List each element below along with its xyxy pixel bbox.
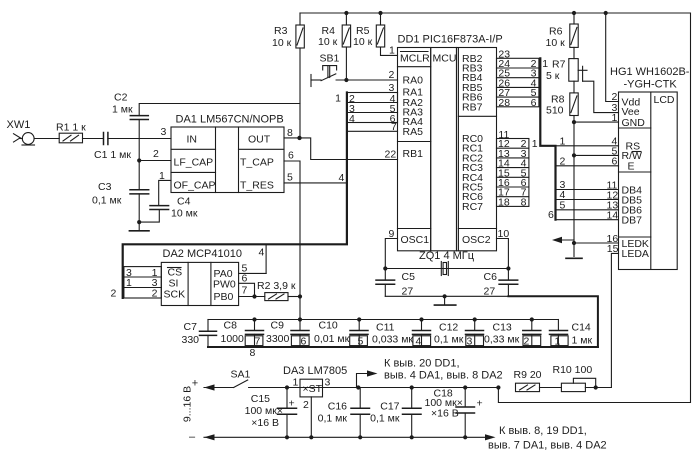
capacitor C8	[245, 320, 263, 347]
svg-text:0,033 мк: 0,033 мк	[372, 334, 413, 346]
svg-text:22: 22	[385, 149, 397, 161]
DD1 pin11 RC0 number	[498, 129, 509, 141]
rail junction dots	[252, 317, 534, 321]
svg-text:0,1 мк: 0,1 мк	[318, 413, 348, 425]
svg-text:9...16 В: 9...16 В	[182, 386, 194, 422]
svg-text:DA1 LM567CN/NOPB: DA1 LM567CN/NOPB	[176, 114, 284, 126]
trimmer R7	[569, 59, 619, 113]
svg-text:10: 10	[498, 228, 510, 240]
svg-text:6: 6	[301, 335, 307, 347]
svg-text:выв. 4 DA1, выв. 8 DA2: выв. 4 DA1, выв. 8 DA2	[384, 370, 503, 382]
svg-text:×16 В: ×16 В	[251, 417, 279, 429]
wire C4 to ground node	[139, 210, 159, 223]
R9 label	[514, 369, 542, 381]
ladder numbers DA2 side	[111, 267, 158, 300]
svg-text:1: 1	[126, 277, 132, 289]
svg-text:LEDA: LEDA	[622, 248, 649, 260]
svg-text:0,33 мк: 0,33 мк	[484, 334, 520, 346]
DA3 labels	[283, 365, 347, 439]
svg-text:6: 6	[612, 156, 618, 168]
R3 value label	[272, 25, 292, 49]
harness bundle RB/RC side to LCD	[540, 58, 555, 219]
svg-text:4: 4	[349, 113, 355, 125]
svg-text:C4: C4	[177, 196, 191, 208]
harness bundle RA side to DA2	[123, 93, 347, 298]
svg-text:27: 27	[484, 286, 496, 298]
wire power minus rail	[204, 436, 489, 438]
wire 6 to DB7	[556, 219, 619, 221]
DD1 left pin name labels	[401, 75, 430, 247]
svg-text:C14: C14	[572, 322, 591, 334]
svg-text:C10: C10	[319, 320, 338, 332]
svg-text:MCLR: MCLR	[400, 53, 430, 65]
svg-text:330: 330	[182, 334, 200, 346]
supply label 9...16V	[182, 378, 199, 444]
MCLR overline	[401, 51, 429, 53]
ground crystal	[434, 296, 455, 305]
svg-text:RB7: RB7	[462, 101, 483, 113]
wire DA1 pin8 to DD1 RB1	[300, 138, 398, 160]
svg-text:C12: C12	[439, 322, 458, 334]
junction C3 node / DA1 pin2	[137, 158, 141, 162]
svg-text:2: 2	[524, 335, 530, 347]
svg-text:1: 1	[555, 335, 561, 347]
capacitor C12	[466, 320, 484, 347]
pushbutton SB1	[311, 66, 398, 87]
svg-text:DD1 PIC16F873A-I/P: DD1 PIC16F873A-I/P	[398, 34, 503, 46]
R5 value label	[353, 25, 373, 48]
svg-text:1: 1	[612, 112, 618, 124]
C1 value label	[94, 149, 131, 161]
svg-text:6: 6	[242, 273, 248, 285]
capacitor C9	[291, 297, 309, 347]
svg-text:8: 8	[521, 196, 527, 208]
junction C4/C3 ground node	[137, 220, 141, 224]
DD1 right pin name labels	[462, 53, 491, 246]
wire GND pin1	[574, 121, 619, 123]
svg-text:PW0: PW0	[213, 279, 236, 291]
svg-text:-YGH-CTK: -YGH-CTK	[624, 79, 678, 91]
svg-text:2: 2	[152, 288, 158, 300]
svg-text:10 мк: 10 мк	[171, 208, 198, 220]
resistor R3	[296, 13, 304, 138]
svg-text:SB1: SB1	[320, 53, 340, 65]
capacitor C17	[403, 388, 422, 438]
wire Vee pin3 number	[612, 102, 618, 114]
junction crystal ground node	[443, 294, 447, 298]
svg-text:OSC1: OSC1	[401, 234, 430, 246]
svg-text:DA3 LM7805: DA3 LM7805	[283, 365, 347, 377]
junction SB1/R4/RA0	[344, 78, 348, 82]
svg-text:100 мк×: 100 мк×	[245, 405, 283, 417]
svg-text:OUT: OUT	[248, 134, 271, 146]
capacitor rail bottom (ground bus)	[208, 346, 598, 348]
wire 5 to DB6	[556, 209, 619, 211]
junction +5V rail / R9 input	[496, 385, 500, 389]
C8 value label	[221, 320, 261, 360]
arrow plus to VCC pins	[357, 370, 378, 387]
C14 value label	[555, 322, 593, 348]
C12 value label	[434, 322, 473, 348]
capacitor C3	[130, 190, 149, 194]
ladder numbers RB side	[498, 58, 548, 109]
wire 4 from bundle to PA0	[239, 244, 267, 273]
svg-text:1: 1	[532, 138, 538, 150]
wire LEDA pin15 from R10	[611, 253, 618, 387]
R1 value label	[56, 122, 86, 134]
capacitor C11	[413, 320, 431, 347]
resistor R5	[376, 13, 397, 55]
digital pot DA2 MCP41010	[161, 262, 238, 305]
C18 polarity and labels	[425, 385, 483, 439]
svg-text:C9: C9	[271, 320, 285, 332]
R8 value label	[546, 94, 565, 117]
capacitor C13	[523, 320, 541, 347]
common arrow at LEDK node	[552, 237, 574, 243]
svg-text:14: 14	[607, 210, 619, 222]
junction OSC1/ZQ1 and OSC2/ZQ1	[383, 266, 510, 270]
ground C3 node	[129, 230, 149, 232]
wire 2 to E	[556, 165, 619, 167]
svg-text:DB7: DB7	[622, 215, 643, 227]
svg-text:MCU: MCU	[433, 53, 457, 65]
svg-text:+: +	[289, 398, 295, 410]
DA1 pin6 wire down to C9 node	[284, 161, 300, 297]
ladder numbers RA side	[335, 93, 396, 125]
svg-text:+: +	[477, 398, 483, 410]
DD1 pin22 RB1 number	[385, 149, 397, 161]
svg-text:RC7: RC7	[462, 201, 483, 213]
svg-text:LCD: LCD	[654, 94, 675, 106]
svg-text:1000: 1000	[221, 333, 245, 345]
DA1 pin8 wire to node	[284, 137, 300, 139]
DA2 title	[163, 248, 243, 303]
svg-text:C8: C8	[224, 320, 238, 332]
svg-text:×16 В: ×16 В	[431, 408, 459, 420]
ground LCD / R8 chain	[566, 257, 582, 259]
svg-text:0,1 мк: 0,1 мк	[370, 413, 400, 425]
capacitor C15 electrolytic	[278, 388, 297, 438]
HG1 pin name labels	[622, 96, 649, 260]
svg-text:28: 28	[498, 97, 510, 109]
svg-text:выв. 7 DA1, выв. 4 DA2: выв. 7 DA1, выв. 4 DA2	[488, 440, 607, 452]
switch SA1	[234, 380, 248, 388]
C10 value label	[314, 320, 364, 348]
ladder boxes RB3-RB7 wires 2-6	[497, 58, 539, 107]
svg-text:OSC2: OSC2	[462, 234, 491, 246]
wire LEDK pin16	[574, 242, 619, 244]
C6 value label	[484, 271, 498, 298]
svg-text:6: 6	[548, 209, 554, 221]
note text VCC pins	[384, 358, 503, 382]
C4 value label	[171, 196, 198, 220]
svg-text:R2 3,9 к: R2 3,9 к	[257, 280, 296, 292]
SB1 label	[320, 53, 340, 65]
svg-text:2: 2	[389, 69, 395, 81]
svg-text:C5: C5	[402, 271, 416, 283]
svg-text:7: 7	[255, 335, 261, 347]
svg-text:RA0: RA0	[403, 75, 424, 87]
wire PB0 to R2	[239, 296, 265, 298]
svg-text:R10 100: R10 100	[553, 364, 593, 376]
svg-text:RA5: RA5	[403, 126, 424, 138]
DA1 pin2 wire	[139, 160, 171, 162]
svg-text:LF_CAP: LF_CAP	[174, 157, 214, 169]
svg-text:0,1 мк: 0,1 мк	[92, 195, 122, 207]
svg-text:7: 7	[391, 121, 397, 133]
XW1 label	[7, 119, 31, 131]
resistor R6	[570, 13, 578, 59]
C17 labels	[370, 385, 414, 439]
DD1 title	[398, 34, 503, 65]
LCD module HG1 WH1602B	[619, 92, 678, 270]
svg-text:9: 9	[389, 228, 395, 240]
wire R9 to R10	[540, 387, 562, 389]
ladder boxes DA2 CS/SI/SCK	[124, 267, 161, 298]
svg-text:GND: GND	[622, 117, 646, 129]
ladder boxes RC1-RC7 wires 2-8	[497, 139, 529, 207]
svg-text:1: 1	[293, 377, 299, 389]
svg-text:10 к: 10 к	[318, 36, 338, 48]
resistor R1	[59, 133, 103, 143]
wire Vdd from top bus	[606, 13, 619, 102]
svg-text:6: 6	[288, 150, 294, 162]
wire crystal ground line	[385, 295, 508, 297]
svg-text:18: 18	[498, 196, 510, 208]
svg-text:RB1: RB1	[403, 148, 424, 160]
DD1 pin7 RA5 wire	[347, 130, 398, 132]
C9 value label	[266, 320, 307, 348]
ladder boxes DD1 RA2-RA4 wires 2,3,4	[347, 93, 398, 123]
svg-text:C1 1 мк: C1 1 мк	[94, 149, 131, 161]
svg-text:R6: R6	[549, 26, 563, 38]
DD1 pin1 number	[389, 45, 395, 57]
DD1 pin2 RA0 number	[389, 69, 395, 81]
svg-text:C15: C15	[251, 393, 270, 405]
svg-text:R3: R3	[274, 25, 288, 37]
svg-text:10 к: 10 к	[272, 37, 292, 49]
DA1 pin1 wire	[159, 180, 171, 205]
svg-text:5: 5	[560, 199, 566, 211]
svg-text:8: 8	[287, 127, 293, 139]
svg-text:1 мк: 1 мк	[112, 104, 133, 116]
junction R10 output	[594, 385, 598, 389]
arrow plus rail	[204, 384, 215, 390]
wire C3 to ground	[138, 194, 140, 231]
svg-text:IN: IN	[187, 134, 198, 146]
C7 value label	[182, 321, 200, 346]
svg-text:2: 2	[560, 155, 566, 167]
svg-text:5 к: 5 к	[546, 70, 560, 82]
svg-text:C6: C6	[484, 271, 498, 283]
wire PW0 to PB0 node	[239, 283, 255, 296]
DA1 pin5 wire to bundle	[284, 182, 347, 184]
svg-text:1: 1	[389, 45, 395, 57]
junction R2 / DA1 pin6 / C9 net	[298, 294, 302, 298]
svg-text:К выв. 8, 19 DD1,: К выв. 8, 19 DD1,	[499, 425, 587, 437]
C2 value label	[112, 92, 133, 116]
svg-text:ZQ1 4 МГц: ZQ1 4 МГц	[419, 250, 475, 262]
svg-text:4: 4	[416, 335, 422, 347]
svg-text:–: –	[189, 431, 196, 443]
wire ground bus to cap rail	[508, 296, 598, 347]
svg-text:DA2 MCP41010: DA2 MCP41010	[163, 248, 243, 260]
svg-text:C3: C3	[98, 181, 112, 193]
junction DA1 pin8 / R3	[297, 136, 301, 140]
resistor R8	[570, 93, 578, 257]
svg-text:PB0: PB0	[214, 291, 234, 303]
wire node vertical C2/C3	[138, 120, 140, 190]
svg-text:6: 6	[531, 97, 537, 109]
svg-text:0,1 мк: 0,1 мк	[434, 334, 464, 346]
HG1 title	[610, 66, 690, 106]
arrow minus rail	[204, 434, 215, 440]
DD1 pin9 OSC1 wire	[385, 239, 397, 269]
C3 value label	[92, 181, 122, 207]
svg-text:T_RES: T_RES	[240, 180, 274, 192]
capacitor C16	[351, 388, 370, 438]
DD1 pin3 RA1 wire	[347, 92, 398, 94]
svg-text:27: 27	[402, 286, 414, 298]
R6 value label	[546, 26, 566, 50]
crystal ZQ1	[385, 262, 508, 276]
capacitor C1	[104, 133, 108, 145]
wire 4 to DB5	[556, 199, 619, 201]
DD1 pin10 OSC2 wire	[497, 239, 509, 269]
capacitor C5	[376, 269, 395, 297]
svg-text:5: 5	[358, 335, 364, 347]
C15 polarity and labels	[245, 385, 295, 439]
R4 value label	[318, 25, 338, 48]
wire C1 to DA1 pin3	[108, 138, 171, 140]
capacitor C6	[499, 269, 518, 297]
svg-text:4: 4	[259, 247, 265, 259]
wire 3 to DB4	[556, 189, 619, 191]
wire +5V top bus	[300, 13, 691, 403]
svg-text:4: 4	[339, 172, 345, 184]
capacitor C10	[350, 320, 368, 347]
R/W overline	[633, 151, 642, 153]
svg-text:SA1: SA1	[231, 369, 251, 381]
svg-text:C2: C2	[114, 92, 128, 104]
svg-text:C11: C11	[376, 322, 395, 334]
svg-text:3: 3	[161, 126, 167, 138]
svg-text:R7: R7	[552, 59, 566, 71]
svg-text:C16: C16	[328, 401, 347, 413]
capacitor C14	[550, 320, 569, 347]
svg-text:К выв. 20 DD1,: К выв. 20 DD1,	[384, 358, 460, 370]
resistor R9	[516, 383, 540, 391]
svg-text:OF_CAP: OF_CAP	[174, 180, 216, 192]
svg-text:SCK: SCK	[164, 289, 186, 301]
svg-text:15: 15	[607, 243, 619, 255]
svg-text:1 мк: 1 мк	[572, 335, 593, 347]
svg-text:10 к: 10 к	[546, 37, 566, 49]
svg-text:510: 510	[546, 105, 564, 117]
svg-text:R1 1 к: R1 1 к	[56, 122, 86, 134]
C5 value label	[402, 271, 416, 298]
svg-text:2: 2	[111, 288, 117, 300]
capacitor rail top	[208, 319, 558, 321]
svg-text:3: 3	[325, 377, 331, 389]
C16 labels	[318, 385, 363, 439]
svg-text:XW1: XW1	[7, 119, 31, 131]
R7 value label	[546, 59, 566, 83]
svg-text:1: 1	[560, 135, 566, 147]
capacitor C18 electrolytic	[456, 388, 475, 438]
svg-text:2: 2	[153, 148, 159, 160]
svg-text:1: 1	[542, 58, 548, 70]
svg-text:1: 1	[159, 170, 165, 182]
svg-text:C7: C7	[184, 321, 198, 333]
svg-text:R9 20: R9 20	[514, 369, 542, 381]
svg-text:10 к: 10 к	[353, 36, 373, 48]
wire power plus rail	[204, 387, 498, 389]
ZQ1 label	[419, 250, 475, 262]
svg-text:3: 3	[467, 335, 473, 347]
capacitor C7	[200, 320, 217, 347]
svg-text:0,01 мк: 0,01 мк	[314, 333, 350, 345]
capacitor C2	[130, 104, 300, 120]
microcontroller DD1 PIC16F873A	[398, 48, 497, 251]
voltage regulator DA3 LM7805	[300, 379, 323, 437]
svg-text:HG1 WH1602B-: HG1 WH1602B-	[610, 66, 690, 78]
rheostat R10	[561, 378, 611, 391]
svg-text:C13: C13	[493, 322, 512, 334]
R10 label	[553, 364, 593, 376]
capacitor C4	[150, 206, 169, 210]
svg-text:2: 2	[303, 399, 309, 411]
svg-text:C17: C17	[380, 401, 399, 413]
C11 value label	[372, 322, 422, 348]
DD1 pin23 RB2 wire	[498, 49, 510, 61]
arrow minus to GND pins	[485, 434, 496, 440]
note text GND pins	[488, 425, 607, 452]
resistor R2	[265, 293, 300, 301]
svg-text:E: E	[628, 161, 635, 173]
C13 value label	[484, 322, 530, 348]
svg-text:8: 8	[250, 347, 256, 359]
svg-text:T_CAP: T_CAP	[240, 157, 274, 169]
junction dots on top bus	[344, 11, 608, 15]
svg-text:5: 5	[287, 172, 293, 184]
op-amp DA1 LM567 tone decoder	[171, 127, 284, 193]
svg-text:7: 7	[242, 285, 248, 297]
R2 value label	[257, 280, 296, 292]
svg-text:1: 1	[335, 93, 341, 105]
wire 1 to RS	[556, 145, 619, 147]
DA1 title	[161, 114, 284, 192]
CS overline	[168, 267, 182, 269]
svg-text:3300: 3300	[266, 333, 290, 345]
resistor R4	[342, 13, 350, 80]
ladder numbers RC side	[498, 138, 538, 208]
wire R/W to GND	[574, 154, 619, 156]
connector XW1	[14, 133, 60, 145]
svg-text:×ST: ×ST	[303, 383, 323, 395]
